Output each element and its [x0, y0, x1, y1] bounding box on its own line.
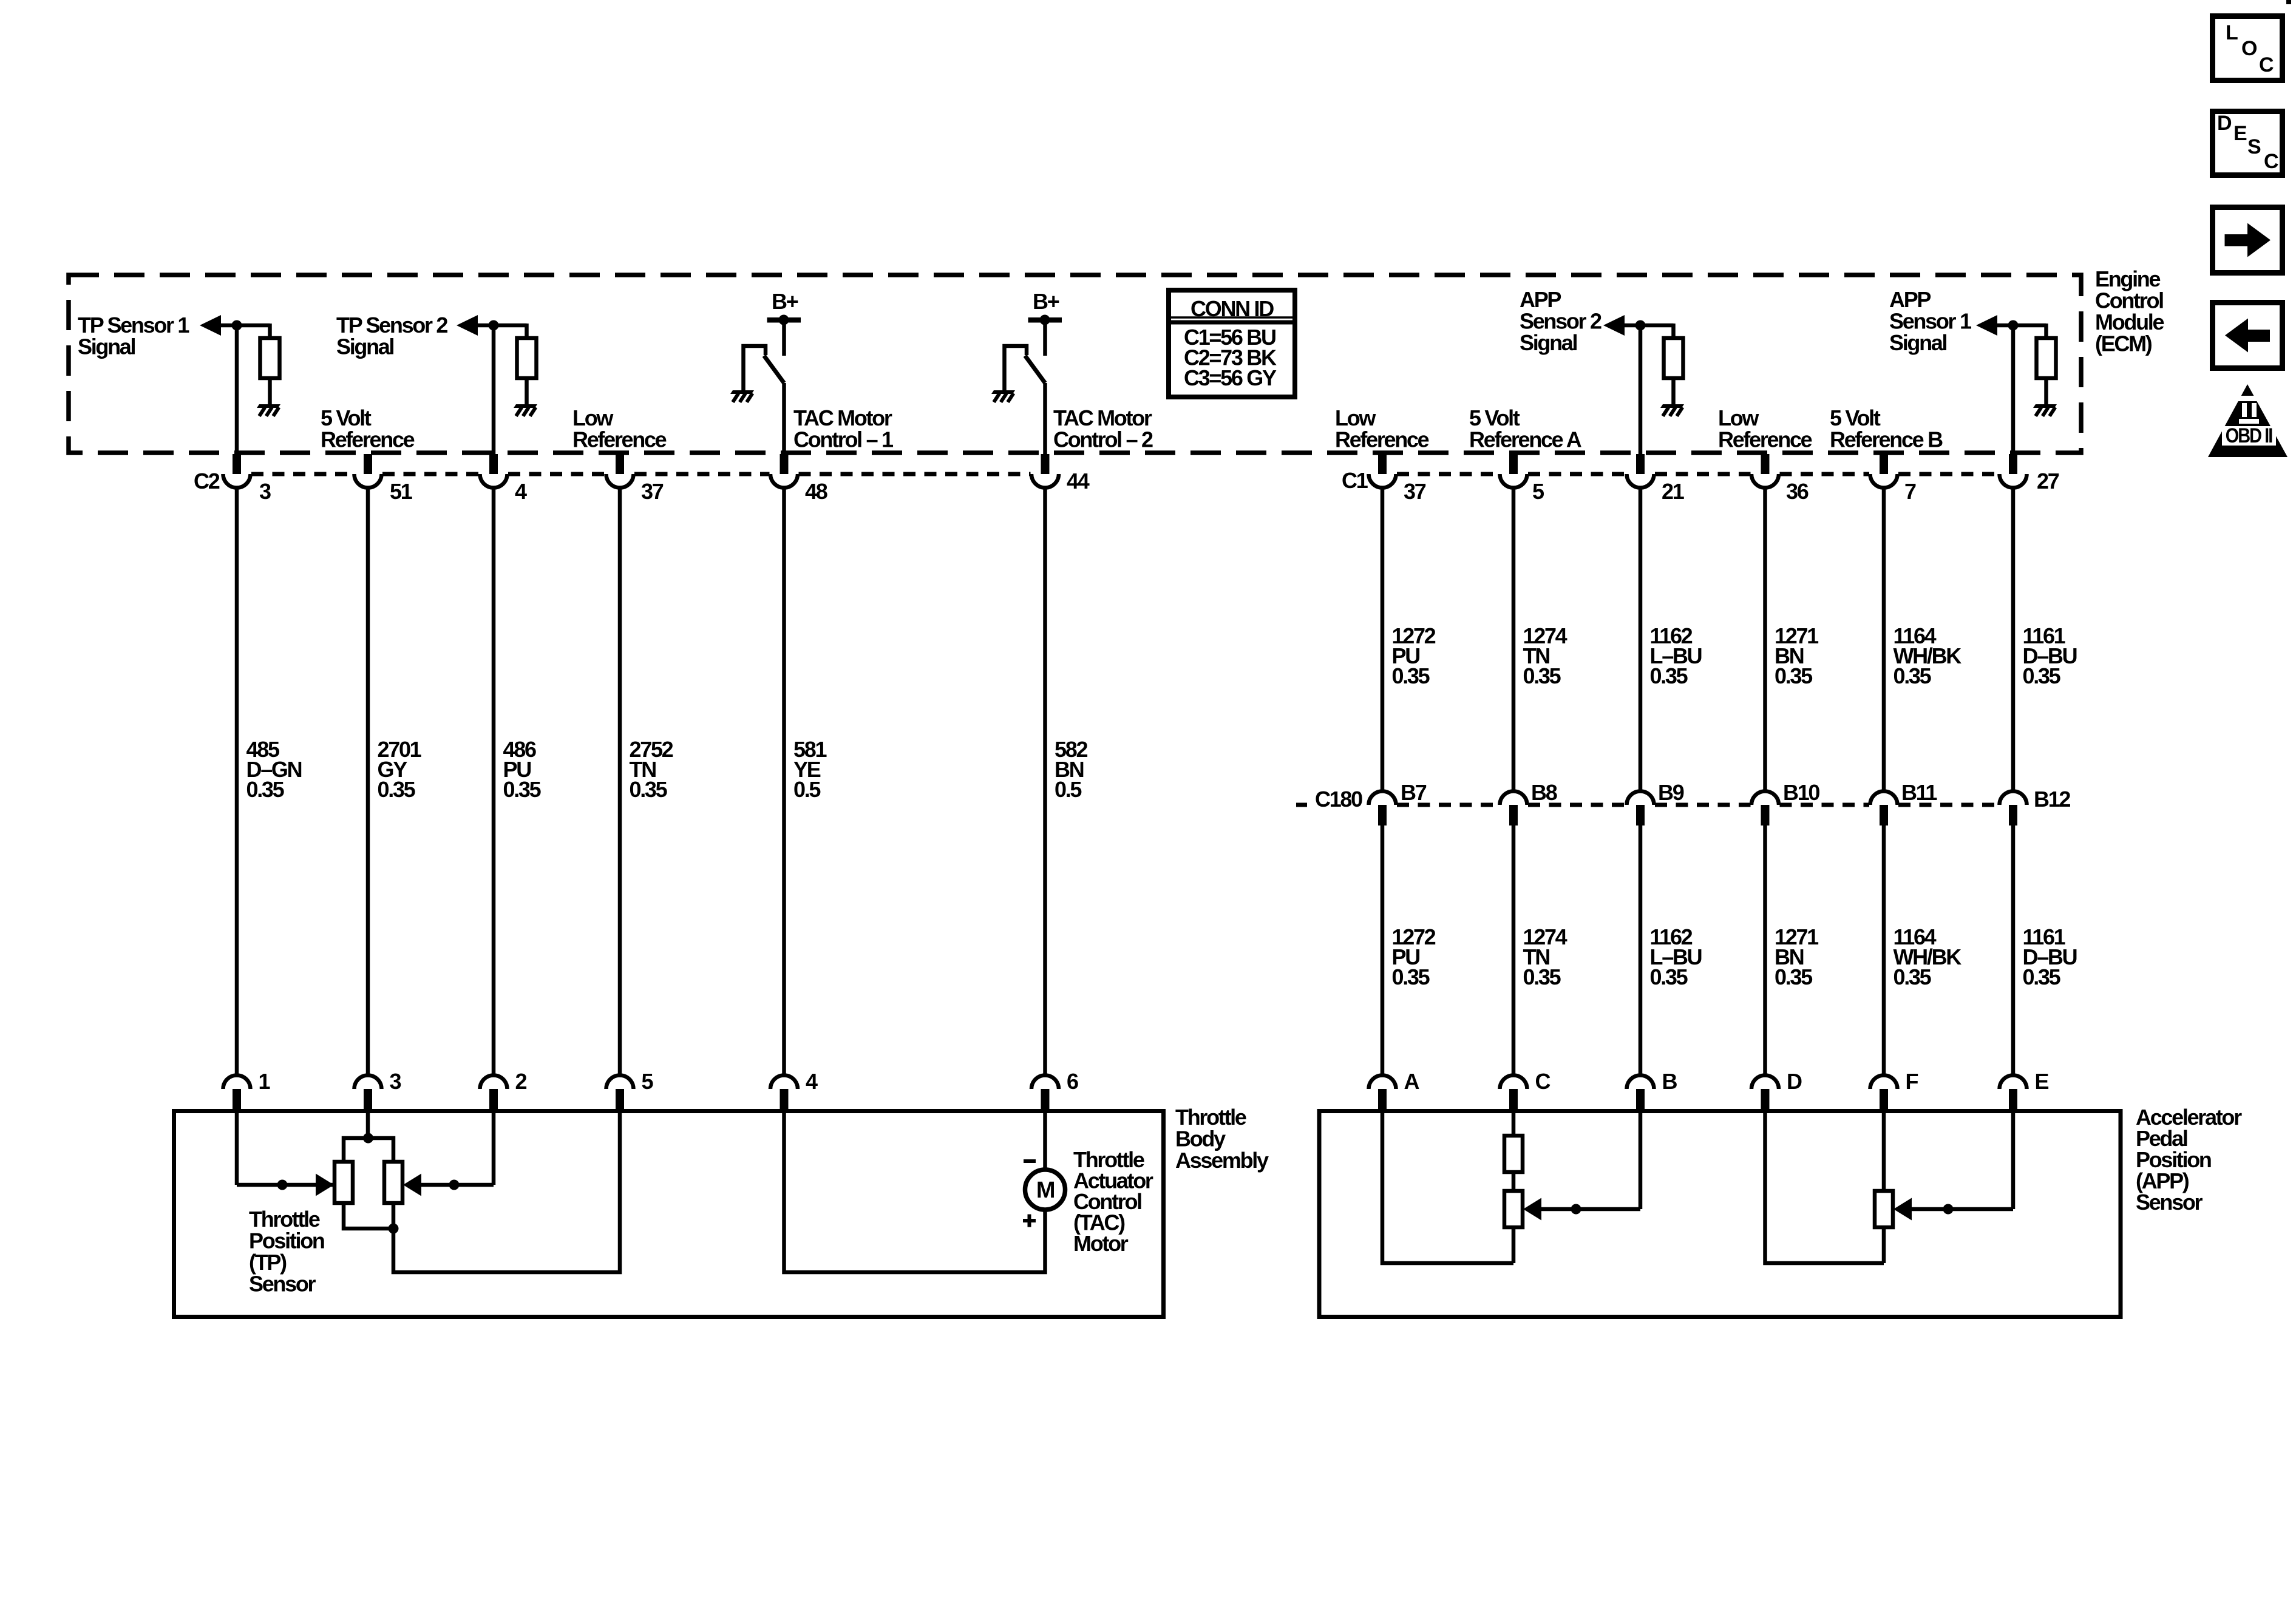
svg-text:B: B	[1662, 1069, 1677, 1094]
svg-text:Control – 1: Control – 1	[793, 427, 894, 452]
svg-text:B11: B11	[1901, 780, 1937, 805]
svg-text:B9: B9	[1658, 780, 1684, 805]
svg-text:0.35: 0.35	[1523, 663, 1561, 688]
svg-text:Signal: Signal	[78, 334, 135, 359]
svg-text:48: 48	[805, 479, 827, 504]
svg-text:1: 1	[259, 1069, 271, 1094]
svg-text:Reference B: Reference B	[1830, 427, 1943, 452]
svg-text:C180: C180	[1315, 787, 1362, 812]
svg-text:37: 37	[641, 479, 664, 504]
svg-text:Sensor: Sensor	[2136, 1190, 2203, 1215]
svg-text:0.35: 0.35	[1650, 663, 1688, 688]
svg-text:Reference: Reference	[321, 427, 415, 452]
svg-text:Motor: Motor	[1073, 1231, 1129, 1256]
svg-text:CONN ID: CONN ID	[1190, 296, 1274, 321]
svg-text:F: F	[1906, 1069, 1918, 1094]
svg-text:0.35: 0.35	[630, 777, 668, 802]
svg-text:51: 51	[390, 479, 413, 504]
svg-text:37: 37	[1404, 479, 1426, 504]
svg-text:4: 4	[515, 479, 527, 504]
svg-text:0.35: 0.35	[1392, 964, 1430, 989]
svg-text:2: 2	[515, 1069, 527, 1094]
svg-text:Reference: Reference	[1335, 427, 1429, 452]
svg-text:Sensor: Sensor	[249, 1272, 316, 1297]
svg-text:0.35: 0.35	[1650, 964, 1688, 989]
svg-text:(ECM): (ECM)	[2095, 331, 2152, 356]
svg-text:5: 5	[642, 1069, 654, 1094]
svg-text:M: M	[1036, 1178, 1055, 1203]
svg-text:Assembly: Assembly	[1175, 1148, 1269, 1173]
svg-text:3: 3	[390, 1069, 401, 1094]
svg-text:21: 21	[1662, 479, 1685, 504]
svg-text:C: C	[2259, 53, 2274, 76]
svg-text:0.35: 0.35	[1775, 663, 1813, 688]
svg-text:D: D	[2217, 112, 2232, 135]
svg-text:C: C	[1535, 1069, 1551, 1094]
svg-text:0.35: 0.35	[1775, 964, 1813, 989]
svg-text:0.35: 0.35	[2023, 964, 2061, 989]
svg-text:E: E	[2035, 1069, 2049, 1094]
svg-text:4: 4	[806, 1069, 818, 1094]
svg-text:27: 27	[2037, 469, 2059, 493]
svg-text:C3=56 GY: C3=56 GY	[1184, 365, 1277, 390]
svg-text:0.35: 0.35	[1894, 964, 1932, 989]
svg-text:Signal: Signal	[1889, 330, 1947, 355]
svg-text:Control – 2: Control – 2	[1053, 427, 1153, 452]
svg-text:C1: C1	[1342, 468, 1368, 493]
svg-text:L: L	[2226, 21, 2238, 44]
svg-text:44: 44	[1067, 469, 1090, 493]
svg-text:C: C	[2264, 150, 2278, 173]
svg-text:0.35: 0.35	[378, 777, 416, 802]
svg-text:7: 7	[1904, 479, 1916, 504]
svg-text:5: 5	[1532, 479, 1544, 504]
svg-text:OBD II: OBD II	[2226, 424, 2272, 447]
svg-text:B8: B8	[1531, 780, 1557, 805]
svg-text:D: D	[1787, 1069, 1802, 1094]
svg-text:O: O	[2241, 37, 2257, 60]
svg-text:0.35: 0.35	[246, 777, 285, 802]
svg-text:3: 3	[259, 479, 271, 504]
svg-text:S: S	[2247, 135, 2261, 158]
svg-text:0.35: 0.35	[2023, 663, 2061, 688]
svg-text:36: 36	[1786, 479, 1809, 504]
svg-text:0.35: 0.35	[503, 777, 542, 802]
svg-text:B+: B+	[772, 289, 798, 314]
svg-text:A: A	[1404, 1069, 1420, 1094]
svg-text:0.35: 0.35	[1894, 663, 1932, 688]
svg-text:Reference: Reference	[1718, 427, 1812, 452]
svg-text:B10: B10	[1783, 780, 1819, 805]
svg-text:B7: B7	[1401, 780, 1427, 805]
svg-text:Reference: Reference	[572, 427, 667, 452]
svg-text:Signal: Signal	[336, 334, 394, 359]
svg-text:0.35: 0.35	[1392, 663, 1430, 688]
svg-text:B12: B12	[2034, 787, 2070, 812]
svg-text:0.35: 0.35	[1523, 964, 1561, 989]
svg-text:B+: B+	[1033, 289, 1059, 314]
svg-text:E: E	[2233, 122, 2247, 145]
svg-text:6: 6	[1067, 1069, 1078, 1094]
svg-text:Signal: Signal	[1520, 330, 1577, 355]
svg-text:0.5: 0.5	[1055, 777, 1082, 802]
svg-text:Reference A: Reference A	[1469, 427, 1582, 452]
svg-text:C2: C2	[194, 469, 220, 493]
svg-text:0.5: 0.5	[793, 777, 821, 802]
